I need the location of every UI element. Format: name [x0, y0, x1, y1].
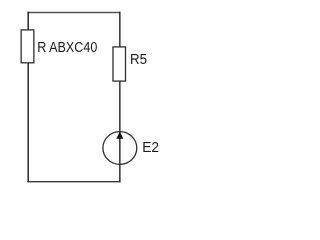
svg-text:R ABXC40: R ABXC40 [37, 38, 97, 55]
resistor R5 label [130, 51, 147, 68]
wire left vertical [27, 12, 29, 183]
current source E2 circle [103, 132, 137, 165]
current source E2 arrow head [116, 131, 123, 138]
wire right vertical [119, 12, 121, 183]
svg-text:R5: R5 [130, 51, 147, 68]
resistor R ABXC40 body [21, 30, 34, 63]
current source E2 label [142, 139, 159, 156]
wire top horizontal [27, 11, 120, 13]
resistor R5 body [113, 47, 126, 81]
svg-text:E2: E2 [142, 139, 159, 156]
wire bottom horizontal [27, 181, 120, 183]
resistor R ABXC40 label [37, 38, 97, 55]
